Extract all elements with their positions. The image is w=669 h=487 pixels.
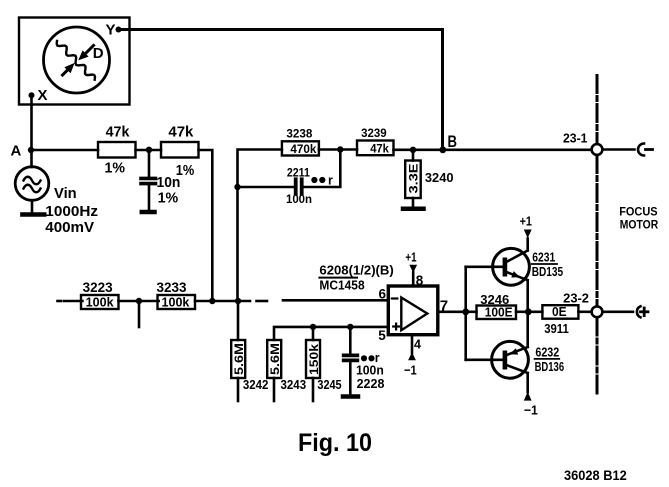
- svg-text:8: 8: [416, 273, 424, 288]
- svg-text:47k: 47k: [370, 142, 389, 156]
- svg-text:6: 6: [379, 287, 387, 302]
- pin 7 output wire: [438, 298, 466, 315]
- svg-text:A: A: [11, 143, 22, 160]
- transistor Q 6231 BD135: [493, 239, 530, 312]
- svg-text:3240: 3240: [425, 171, 454, 185]
- resistor 47k #1: [98, 124, 136, 177]
- node stub tap: [136, 298, 142, 327]
- board boundary dash-dot line: [596, 76, 599, 398]
- light ray zigzag: [57, 41, 95, 80]
- wire base rail: [466, 267, 503, 360]
- svg-text:r: r: [375, 351, 380, 365]
- wire node A to 47k: [31, 149, 98, 152]
- node output/base rail: [462, 308, 469, 315]
- svg-text:100n: 100n: [356, 364, 384, 378]
- resistor 47k #2: [161, 124, 199, 180]
- supply +1 (Q 6231): [520, 214, 532, 239]
- resistor 3245 150k: [306, 324, 342, 401]
- op-amp U 6208 MC1458: [388, 286, 438, 335]
- svg-text:D: D: [93, 45, 104, 62]
- svg-text:3911: 3911: [544, 322, 569, 336]
- op-amp type label: [319, 264, 393, 293]
- svg-text:47k: 47k: [106, 124, 130, 141]
- photodiode unit box: [19, 18, 130, 105]
- svg-text:5.6M: 5.6M: [232, 343, 246, 375]
- light arrow lower-left: [63, 63, 75, 75]
- svg-text:1000Hz: 1000Hz: [45, 203, 98, 220]
- wire node down to 2211: [305, 150, 341, 188]
- resistor 3246 100E: [466, 293, 529, 320]
- pin 4 supply -1: [404, 335, 421, 378]
- resistor 3239 47k: [357, 126, 394, 156]
- svg-text:3239: 3239: [361, 126, 387, 140]
- svg-text:1%: 1%: [158, 191, 179, 207]
- svg-text:3.3E: 3.3E: [406, 164, 420, 194]
- wire Y to node B: [120, 30, 443, 151]
- svg-text:−1: −1: [404, 363, 417, 378]
- node 3240 tap: [410, 147, 416, 153]
- svg-text:B: B: [448, 133, 458, 151]
- svg-text:1%: 1%: [105, 161, 126, 177]
- wire X to node A: [30, 96, 33, 150]
- svg-text:2228: 2228: [357, 377, 385, 391]
- pin 8 supply +1: [405, 250, 423, 289]
- svg-text:6208(1/2)(B): 6208(1/2)(B): [319, 264, 393, 278]
- svg-text:470k: 470k: [290, 142, 316, 156]
- svg-text:BD136: BD136: [535, 360, 565, 374]
- wire 2211 to feedback rail: [238, 186, 296, 189]
- resistor 3233 100k: [157, 279, 196, 310]
- svg-text:100E: 100E: [485, 306, 513, 320]
- resistor 3223 100k: [81, 279, 119, 310]
- capacitor 2228 100n: [344, 324, 385, 395]
- FOCUS MOTOR label: [619, 204, 658, 231]
- svg-text:Vin: Vin: [54, 186, 77, 202]
- wire input stub dashes: [58, 300, 83, 303]
- selection dots and r mark (2228): [361, 351, 380, 365]
- svg-text:Fig. 10: Fig. 10: [298, 429, 372, 457]
- node A: [11, 143, 35, 160]
- ground (Vin): [22, 212, 44, 217]
- resistor 3238 470k: [282, 126, 319, 156]
- svg-text:23-2: 23-2: [563, 292, 589, 306]
- svg-text:r: r: [328, 174, 333, 188]
- resistor 3243 5.6M: [267, 340, 306, 401]
- svg-text:3243: 3243: [281, 378, 307, 392]
- svg-text:100k: 100k: [86, 296, 114, 310]
- resistor 3242 5.6M: [231, 301, 268, 401]
- node input/feedback/3242: [235, 298, 241, 304]
- node feedback/2211: [234, 184, 240, 190]
- svg-text:BD135: BD135: [532, 265, 563, 279]
- transistor Q 6232 BD136: [492, 312, 529, 392]
- wire 3233 to inverting input (dash-dot break): [195, 299, 388, 302]
- terminal Y: [106, 22, 122, 39]
- wire pin5 row: [274, 327, 388, 340]
- selection dots and r mark (2211): [311, 174, 333, 188]
- svg-text:47k: 47k: [168, 124, 194, 141]
- terminal 23-1: [563, 132, 602, 155]
- svg-text:3233: 3233: [157, 279, 187, 295]
- svg-text:3242: 3242: [243, 378, 269, 392]
- svg-text:7: 7: [440, 298, 448, 315]
- svg-text:3238: 3238: [286, 126, 312, 140]
- ground (10n): [142, 210, 155, 215]
- svg-text:2211: 2211: [287, 166, 310, 180]
- svg-text:6231: 6231: [532, 251, 555, 265]
- svg-text:4: 4: [414, 338, 421, 352]
- svg-text:23-1: 23-1: [563, 132, 588, 146]
- supply -1 (Q 6232): [524, 392, 538, 418]
- svg-text:100k: 100k: [162, 296, 190, 310]
- svg-text:+1: +1: [520, 214, 532, 229]
- svg-text:FOCUS: FOCUS: [619, 204, 658, 218]
- Vin labels: [45, 186, 98, 236]
- label 6231 BD135: [532, 251, 563, 279]
- label 6232 BD136: [535, 346, 565, 374]
- connector pin plus: [603, 306, 649, 317]
- resistor 3240 3.3E: [405, 150, 453, 207]
- svg-text:5: 5: [378, 328, 386, 343]
- Vin AC source: [15, 150, 49, 212]
- wire 47k #2 to input rail: [199, 150, 213, 301]
- wire 3239 to terminal 23-1: [394, 149, 592, 152]
- svg-text:3223: 3223: [83, 279, 113, 295]
- node B: [439, 133, 457, 153]
- svg-text:−1: −1: [524, 403, 538, 418]
- svg-text:100n: 100n: [286, 192, 312, 206]
- svg-text:MC1458: MC1458: [319, 278, 364, 292]
- wire 3223 to 3233: [119, 300, 159, 303]
- wire feedback left rail: [238, 150, 282, 302]
- svg-text:400mV: 400mV: [45, 219, 94, 236]
- svg-text:150k: 150k: [307, 344, 321, 375]
- svg-text:36028 B12: 36028 B12: [564, 468, 627, 483]
- terminal 23-2: [563, 292, 602, 318]
- node 47k/47k/10n: [146, 147, 152, 153]
- svg-text:+1: +1: [405, 250, 416, 265]
- wire 3238 to node: [319, 148, 357, 151]
- ground (2228): [343, 394, 358, 399]
- connector pin minus: [603, 144, 653, 156]
- terminal X: [29, 87, 48, 104]
- svg-text:0E: 0E: [552, 305, 567, 319]
- node emitter rail: [525, 308, 532, 315]
- svg-text:3245: 3245: [317, 378, 341, 392]
- svg-text:5.6M: 5.6M: [268, 343, 282, 375]
- svg-text:X: X: [38, 87, 48, 104]
- photodiode D symbol circle: [44, 27, 110, 93]
- svg-text:1%: 1%: [176, 163, 195, 179]
- svg-text:Y: Y: [106, 22, 116, 39]
- light arrow upper-right: [78, 46, 93, 61]
- capacitor 10n 1%: [141, 150, 180, 211]
- resistor 3911 0E: [528, 305, 591, 336]
- capacitor 2211 100n: [286, 166, 312, 207]
- node input/47k rail: [209, 298, 215, 304]
- wire to junction: [136, 149, 162, 152]
- node 3238/3239/2211: [337, 146, 343, 152]
- svg-text:MOTOR: MOTOR: [620, 217, 659, 231]
- ground (3240): [403, 207, 424, 212]
- svg-text:6232: 6232: [535, 346, 559, 360]
